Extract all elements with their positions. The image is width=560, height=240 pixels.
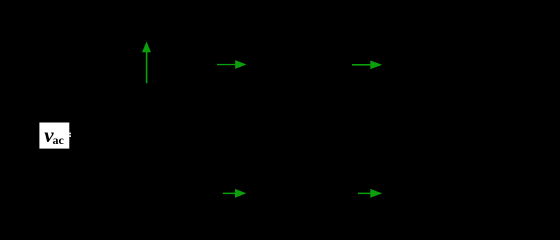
ground bbox=[282, 193, 298, 209]
current arrow i5 (right, bottom rail right) bbox=[358, 189, 382, 198]
svg-text:ac: ac bbox=[53, 133, 65, 147]
resistor R1 bbox=[142, 65, 152, 145]
resistor RL bbox=[495, 65, 505, 194]
wire: source to top rail bbox=[79, 65, 81, 120]
transistor Q1 bbox=[268, 65, 292, 155]
current arrow i1 (up, at input branch) bbox=[142, 42, 151, 84]
transistor Q2 bbox=[398, 65, 422, 155]
wire: source to bottom rail bbox=[79, 151, 81, 193]
current arrow i3 (right, top rail right) bbox=[352, 61, 382, 70]
wire: bottom rail bbox=[80, 192, 500, 194]
label box for source value bbox=[39, 123, 69, 149]
wire: top rail bbox=[80, 64, 500, 66]
current arrow i2 (right, top rail left) bbox=[217, 60, 246, 69]
current arrow i4 (right, bottom rail left) bbox=[223, 189, 246, 198]
AC source VAC bbox=[64, 119, 96, 151]
tick marks right of label box bbox=[69, 133, 71, 135]
